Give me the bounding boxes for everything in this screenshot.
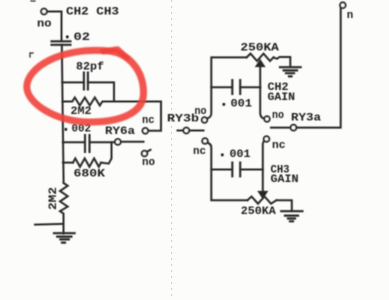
wiper stem upper (259, 67, 261, 88)
wire terminal to main line (47, 12, 62, 42)
relay arm RY3b (178, 130, 204, 132)
wire 82pf branch right (88, 82, 114, 101)
svg-text:nc: nc (272, 140, 286, 152)
capacitor .001 lower (232, 163, 240, 177)
svg-text:001: 001 (231, 99, 253, 111)
relay contact RY3a nc (264, 136, 270, 142)
svg-text:nc: nc (142, 115, 155, 127)
svg-text:RY3a: RY3a (291, 113, 321, 125)
resistor 2M2 vertical (60, 183, 68, 234)
relay arm RY6a (121, 141, 144, 143)
svg-text:n: n (347, 10, 354, 22)
wire main vertical (62, 45, 64, 183)
wire RY3b nc down to network (207, 143, 247, 201)
resistor 2M2 horizontal (62, 98, 114, 106)
wire RY3b no up to network (207, 57, 247, 118)
wire .001 lower row (211, 169, 262, 171)
terminal input no (41, 9, 47, 15)
capacitor .002 plates (85, 135, 90, 152)
wire .001 upper row (211, 86, 260, 88)
red annotation circle (27, 49, 144, 122)
svg-text:001: 001 (230, 149, 251, 161)
potentiometer 250KA upper (247, 54, 274, 61)
svg-text:no: no (195, 106, 207, 118)
wire left stub at ground (35, 223, 62, 226)
svg-text:GAIN: GAIN (268, 92, 296, 104)
terminal n top right (340, 2, 346, 8)
potentiometer 250KA lower (248, 197, 277, 204)
relay pole RY6a (115, 139, 121, 145)
ground left (54, 233, 75, 242)
wire cap to pole (90, 141, 116, 143)
svg-text:nc: nc (193, 146, 206, 158)
svg-text:2M2: 2M2 (48, 187, 60, 210)
svg-text:no: no (37, 19, 52, 31)
label .001 lower (221, 154, 224, 157)
wire RY3a nc down (263, 141, 264, 191)
relay contact RY3b no (202, 117, 207, 122)
capacitor 82pf plates (84, 73, 88, 90)
svg-text:02: 02 (74, 32, 91, 44)
svg-text:680K: 680K (74, 169, 106, 181)
ground upper right (280, 67, 301, 76)
relay arm RY3a (271, 127, 291, 129)
svg-text:no: no (142, 157, 155, 169)
wiper lower triangle (258, 191, 267, 198)
relay contact RY3b nc (202, 138, 208, 144)
relay contact RY6a nc (143, 128, 149, 134)
ground lower right (281, 211, 302, 221)
label .002 (65, 128, 68, 131)
label .02 (66, 36, 69, 39)
svg-text:no: no (272, 110, 284, 122)
svg-text:GAIN: GAIN (271, 174, 299, 186)
wire .002 row / RY6a pole row (63, 141, 85, 143)
label .001 upper (223, 103, 226, 106)
wire network output (114, 102, 161, 131)
wire wiper down to RY3a no (260, 87, 264, 118)
svg-text:RY6a: RY6a (105, 126, 135, 138)
speck top-left (30, 1, 35, 57)
crease dotted line (171, 0, 173, 300)
wire pot upper right to ground (274, 57, 291, 67)
relay contact RY3a no (264, 116, 269, 121)
capacitor .02 (52, 41, 71, 45)
relay contact RY6a no (142, 151, 148, 157)
wire RY3a pole to terminal n (296, 8, 340, 128)
stub RY6a no (147, 150, 151, 152)
relay pole RY3b (183, 128, 189, 134)
svg-text:82pf: 82pf (76, 62, 104, 74)
wire pot lower right to ground (276, 200, 291, 210)
wire 82pf branch left (62, 81, 84, 83)
svg-text:CH2 CH3: CH2 CH3 (66, 7, 119, 19)
capacitor .001 upper (232, 80, 240, 94)
resistor 680K (73, 158, 101, 166)
svg-text:2M2: 2M2 (71, 106, 92, 118)
svg-text:250KA: 250KA (241, 206, 276, 218)
wire 680K left lead (63, 162, 73, 164)
wire 680K right lead up (101, 142, 112, 163)
wiper upper (256, 60, 265, 67)
svg-text:250KA: 250KA (240, 43, 279, 55)
relay pole RY3a (291, 125, 297, 131)
